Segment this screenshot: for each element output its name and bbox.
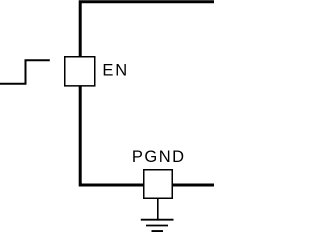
svg-text:EN: EN — [102, 62, 129, 80]
svg-text:PGND: PGND — [132, 148, 186, 166]
